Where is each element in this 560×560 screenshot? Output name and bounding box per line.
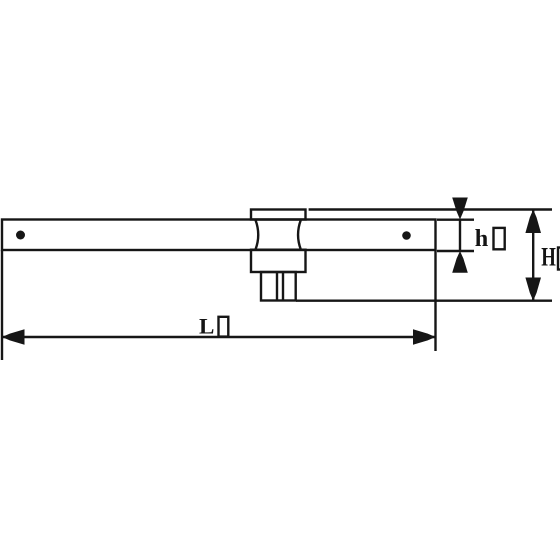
left hole dot [16, 231, 25, 240]
arrow H top (points up to cap top line) [525, 210, 541, 234]
drive corner edge line 1 [276, 272, 278, 301]
dimension line L (horizontal) [2, 336, 436, 338]
svg-text:H: H [541, 243, 556, 272]
extension line: cap top level [309, 208, 552, 210]
arrow L right (points right) [413, 329, 436, 344]
right hole dot [402, 231, 411, 240]
dimension line H (vertical) [532, 210, 534, 301]
arrow L left (points left) [2, 329, 25, 344]
label H tofu box (clipped at edge) [558, 248, 560, 270]
slider neck right curve [298, 220, 301, 250]
dimension line h (vertical) [459, 220, 461, 252]
drive corner edge line 2 [282, 272, 284, 301]
square drive tang [261, 272, 296, 301]
arrow h bottom (points up to bar bottom) [452, 251, 468, 273]
label L tofu box [219, 317, 229, 337]
extension line: L right (below bar right end) [434, 250, 436, 351]
svg-text:L: L [199, 313, 214, 338]
bar (sliding T-handle shaft) [2, 220, 436, 251]
label h tofu box [494, 228, 505, 249]
svg-text:h: h [475, 225, 489, 252]
extension line: bar top short (right of bar) [437, 218, 474, 220]
extension line: L left (below bar left end) [1, 250, 3, 360]
arrow H bottom (points down to drive bottom line) [525, 278, 541, 301]
arrow h top (points down to bar top) [452, 198, 468, 220]
slider neck left curve [256, 220, 259, 250]
slider collar (below bar) [251, 250, 306, 272]
extension line: bar bottom short (right of bar) [437, 250, 474, 252]
slider cap (top rectangle) [251, 210, 306, 220]
extension line: drive bottom level [296, 300, 552, 302]
